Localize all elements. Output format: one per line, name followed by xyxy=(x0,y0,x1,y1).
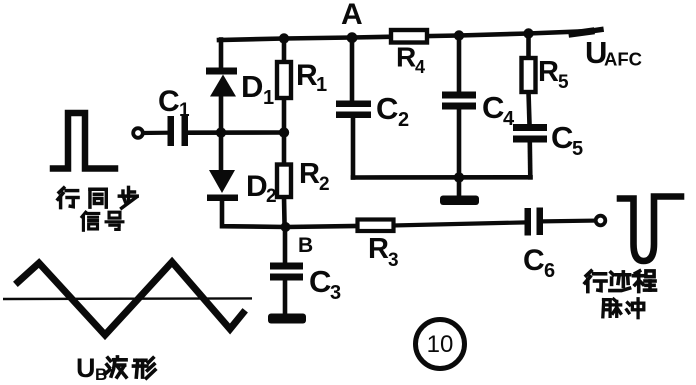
label C1 xyxy=(158,85,190,121)
wire end arrow tip xyxy=(591,30,601,31)
svg-text:R: R xyxy=(538,56,559,88)
retrace pulse waveform icon xyxy=(620,197,681,262)
wire node A down to C2 xyxy=(350,38,355,102)
wire top rail from D1 branch to UAFC output xyxy=(219,31,591,40)
wire C2 bottom lead xyxy=(351,118,356,178)
svg-text:B: B xyxy=(298,234,313,257)
label D2 xyxy=(246,170,277,207)
svg-text:6: 6 xyxy=(544,260,555,282)
resistor R1 xyxy=(277,62,291,98)
svg-text:2: 2 xyxy=(398,109,409,131)
wire C3 bottom plate to ground xyxy=(283,280,288,315)
svg-text:C: C xyxy=(309,264,331,299)
node junction C4 top xyxy=(454,30,464,40)
resistor R5 xyxy=(522,58,536,92)
svg-text:3: 3 xyxy=(388,250,399,271)
svg-text:C: C xyxy=(158,85,180,118)
label D1 xyxy=(241,69,274,109)
capacitor C6 xyxy=(525,208,544,236)
wire D2 cathode down and right to node B xyxy=(222,201,358,227)
text bo-xing char 2 xyxy=(133,358,155,378)
text bo-xing (waveform) char 1 xyxy=(106,357,126,377)
wire C5 bottom lead xyxy=(527,142,532,177)
svg-text:1: 1 xyxy=(316,74,327,96)
text mai-chong (pulse) char 1 xyxy=(603,299,621,317)
capacitor C1 xyxy=(168,116,189,146)
svg-text:U: U xyxy=(76,353,96,383)
wire R5 bottom lead to C5 xyxy=(529,92,530,125)
text hang-tong-bu char 2 xyxy=(90,189,106,207)
svg-text:2: 2 xyxy=(266,186,277,207)
text hang-ni-cheng char 2 xyxy=(610,272,630,291)
svg-text:R: R xyxy=(368,233,389,265)
svg-text:R: R xyxy=(296,59,318,92)
node junction R1 R2 xyxy=(279,127,289,137)
wire C6 to output terminal xyxy=(543,219,595,224)
label C2 xyxy=(376,91,409,131)
node junction D1 D2 C1 xyxy=(216,127,226,137)
label R1 xyxy=(296,59,327,96)
text xin-hao char 2 xyxy=(106,212,123,229)
capacitor C2 xyxy=(336,101,371,119)
wire C4 top lead xyxy=(457,36,462,93)
label UAFC xyxy=(585,35,642,70)
svg-text:A: A xyxy=(341,0,363,31)
svg-text:R: R xyxy=(299,158,320,190)
label R2 xyxy=(299,158,330,195)
svg-text:1: 1 xyxy=(263,87,274,109)
wire D1 anode to junction xyxy=(219,96,224,133)
svg-text:R: R xyxy=(396,42,416,73)
node junction R1 top xyxy=(279,33,289,43)
wire junction down to D2 xyxy=(219,133,224,171)
svg-text:5: 5 xyxy=(558,72,569,93)
label C4 xyxy=(482,90,515,130)
wire R3 to C6 xyxy=(394,222,526,225)
svg-text:4: 4 xyxy=(503,108,515,130)
node A junction dot xyxy=(347,32,358,43)
capacitor C4 xyxy=(442,92,476,110)
wire ground stem under C4 xyxy=(457,178,462,196)
svg-text:AFC: AFC xyxy=(604,49,642,70)
node junction R5 top xyxy=(523,28,533,38)
wire R1 bottom lead xyxy=(282,98,287,133)
svg-text:4: 4 xyxy=(415,57,425,77)
text hang-ni-cheng char 3 xyxy=(633,271,655,292)
wire R2 top lead xyxy=(282,133,287,165)
wire R1 top lead xyxy=(282,39,287,63)
svg-text:C: C xyxy=(523,244,545,277)
text hang-tong-bu char 3 xyxy=(119,187,137,208)
UB triangle waveform baseline xyxy=(3,297,252,300)
wire R2 bottom lead to node B xyxy=(282,197,287,227)
diode D2 xyxy=(207,170,238,201)
svg-text:C: C xyxy=(482,90,504,125)
resistor R4 xyxy=(391,30,427,43)
sync pulse waveform icon xyxy=(53,113,115,169)
output terminal circle xyxy=(596,216,606,226)
UB triangle waveform zigzag xyxy=(18,262,243,335)
text hang-tong-bu (line sync) char 1 xyxy=(58,188,78,208)
ground under C3 xyxy=(268,314,306,324)
capacitor C5 xyxy=(513,124,547,143)
svg-text:D: D xyxy=(246,170,268,203)
resistor R2 xyxy=(277,165,291,198)
svg-text:D: D xyxy=(241,69,263,104)
figure number circle 10 xyxy=(416,320,465,369)
ground under C4 xyxy=(440,196,479,206)
capacitor C3 xyxy=(270,263,303,281)
svg-text:C: C xyxy=(551,120,573,155)
label UB waveform xyxy=(76,353,107,384)
text hang-ni-cheng (line retrace) char 1 xyxy=(585,271,606,292)
svg-text:5: 5 xyxy=(572,138,583,160)
input terminal circle xyxy=(133,128,143,138)
label R3 xyxy=(368,233,399,271)
wire UAFC end tick xyxy=(572,31,591,34)
diode D1 xyxy=(206,68,237,97)
label R4 xyxy=(396,42,425,78)
label C5 xyxy=(551,120,583,160)
wire C1 right plate to diode junction xyxy=(188,130,284,135)
svg-text:1: 1 xyxy=(179,100,190,121)
svg-text:3: 3 xyxy=(330,282,341,304)
label R5 xyxy=(538,56,569,93)
wire bottom rail C2 to C5 xyxy=(353,175,531,180)
svg-text:10: 10 xyxy=(427,331,454,358)
node B junction dot xyxy=(281,222,291,232)
svg-text:C: C xyxy=(376,91,398,126)
label C3 xyxy=(309,264,341,304)
wire R5 top lead xyxy=(526,34,531,59)
svg-text:2: 2 xyxy=(319,174,330,195)
node junction ground bottom rail xyxy=(454,172,464,182)
wire C1 to R1 bottom horizontal xyxy=(143,131,168,136)
wire node B down to C3 xyxy=(283,227,288,263)
wire top rail corner down to D1 xyxy=(219,40,224,69)
wire C4 bottom lead xyxy=(457,109,462,178)
text mai-chong char 2 xyxy=(627,299,644,318)
resistor R3 xyxy=(358,220,394,232)
text xin-hao (signal) char 1 xyxy=(82,212,99,230)
label C6 xyxy=(523,244,555,282)
